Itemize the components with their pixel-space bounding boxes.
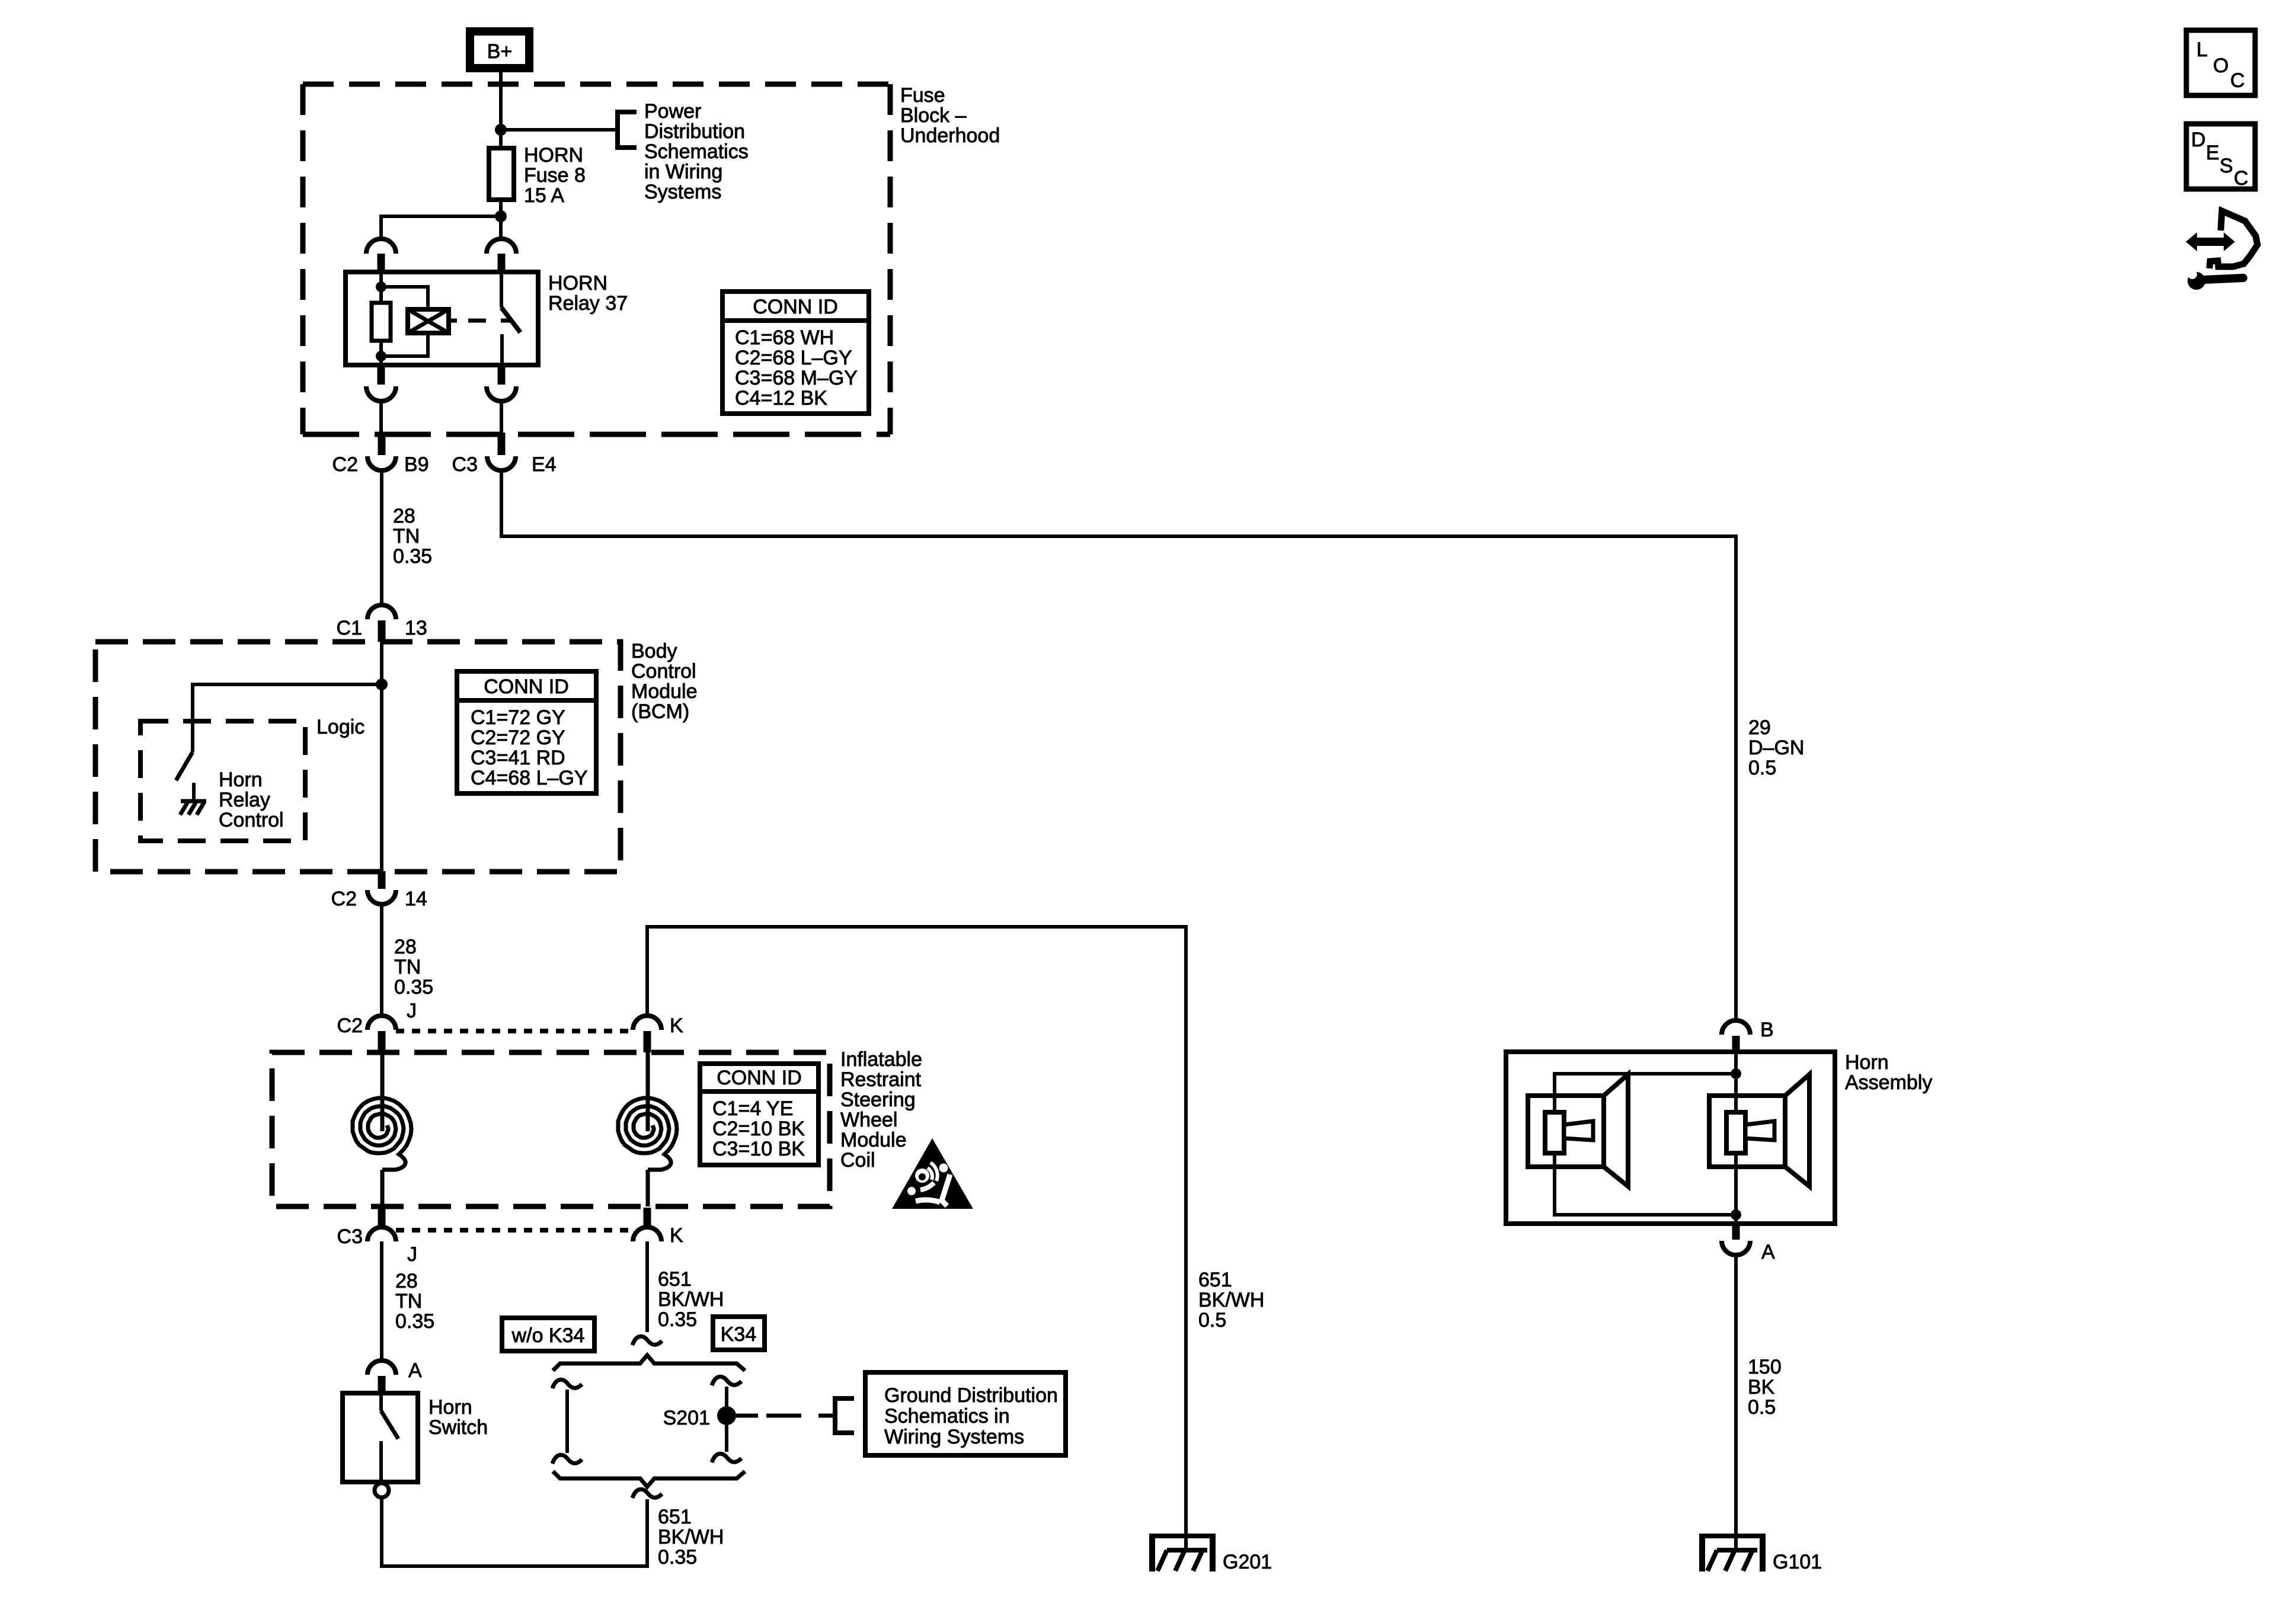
svg-text:CONN ID: CONN ID (484, 676, 569, 698)
svg-text:Horn: Horn (428, 1396, 472, 1419)
splice S201 (717, 1406, 736, 1425)
dashed actuation link (449, 319, 511, 323)
horn assembly box (1506, 1052, 1835, 1224)
power distribution reference bracket (618, 112, 637, 148)
top option brace (553, 1355, 745, 1371)
svg-text:(BCM): (BCM) (631, 700, 689, 723)
svg-text:0.35: 0.35 (394, 976, 433, 998)
svg-text:Wheel: Wheel (840, 1109, 897, 1131)
svg-text:C2: C2 (337, 1014, 363, 1037)
SIR warning triangle (892, 1138, 973, 1209)
svg-text:Logic: Logic (316, 716, 364, 738)
wire 651 BK/WH 0.35 (K to splice) (645, 1241, 649, 1332)
svg-text:S: S (2220, 155, 2233, 177)
connector A (horn switch) (367, 1361, 396, 1375)
horn relay control switch blade (176, 752, 193, 780)
svg-text:C4=12 BK: C4=12 BK (735, 387, 827, 409)
svg-text:15 A: 15 A (524, 184, 564, 207)
svg-text:C3: C3 (337, 1225, 363, 1248)
BCM dashed box (95, 642, 621, 872)
svg-text:C3=68 M–GY: C3=68 M–GY (735, 367, 858, 389)
svg-text:0.5: 0.5 (1748, 757, 1776, 779)
resistor inside relay (372, 303, 391, 341)
wire K to G201 branch (647, 927, 1186, 1536)
svg-text:C2: C2 (332, 453, 358, 476)
connector C2 pin J (367, 1016, 396, 1030)
svg-text:G101: G101 (1773, 1551, 1822, 1573)
svg-text:D: D (2191, 129, 2206, 151)
wire 651 BK/WH 0.35 (splice to horn switch) (382, 1497, 647, 1566)
DESC box icon (2186, 124, 2255, 189)
svg-text:Schematics in: Schematics in (884, 1405, 1010, 1427)
svg-text:0.35: 0.35 (393, 545, 432, 568)
K34 tag box (713, 1317, 765, 1350)
svg-text:C2: C2 (331, 888, 357, 910)
svg-text:B9: B9 (404, 453, 429, 476)
svg-text:29: 29 (1748, 716, 1771, 739)
svg-text:Underhood: Underhood (900, 124, 1000, 147)
connector C1 pin 13 (367, 605, 396, 619)
svg-text:K34: K34 (721, 1323, 757, 1346)
svg-text:Distribution: Distribution (644, 120, 745, 143)
svg-text:C1: C1 (337, 617, 362, 639)
svg-text:Control: Control (219, 809, 284, 831)
wire end into G201 (1184, 1536, 1188, 1550)
svg-text:13: 13 (405, 617, 427, 639)
horn (left) (1528, 1096, 1604, 1167)
svg-text:B+: B+ (487, 40, 513, 63)
relay coil (box with X) (408, 309, 449, 333)
wire 28 TN 0.35 (J to horn switch A) (380, 1241, 383, 1361)
svg-text:Wiring Systems: Wiring Systems (884, 1426, 1024, 1448)
fuse block - underhood dashed boundary (303, 82, 890, 87)
LOC box icon (2186, 30, 2255, 95)
svg-text:HORN: HORN (524, 144, 583, 167)
relay switch (500, 272, 503, 308)
svg-text:A: A (1761, 1241, 1775, 1263)
svg-text:CONN ID: CONN ID (753, 296, 838, 318)
svg-text:651: 651 (658, 1268, 692, 1291)
w/o K34 path (552, 1379, 582, 1388)
connector A (horn assembly) (1732, 1224, 1740, 1240)
svg-text:Ground Distribution: Ground Distribution (884, 1384, 1058, 1407)
svg-text:C3=41 RD: C3=41 RD (471, 747, 565, 769)
svg-text:G201: G201 (1223, 1551, 1272, 1573)
connector C2 pin B9 (378, 433, 386, 455)
svg-text:BK: BK (1748, 1376, 1775, 1398)
svg-text:Inflatable: Inflatable (840, 1048, 922, 1071)
interconnect dotted line C2J-K (396, 1029, 633, 1033)
svg-text:28: 28 (395, 1270, 418, 1292)
svg-text:O: O (2213, 55, 2228, 77)
w/o K34 tag box (502, 1318, 594, 1351)
B+ battery terminal (470, 31, 529, 68)
svg-text:C3: C3 (452, 453, 478, 476)
svg-text:Control: Control (631, 660, 696, 683)
svg-text:L: L (2196, 39, 2208, 61)
svg-text:14: 14 (405, 888, 427, 910)
connector C3 pin E4 (498, 433, 506, 455)
svg-text:TN: TN (393, 525, 420, 548)
svg-text:BK/WH: BK/WH (658, 1526, 724, 1548)
svg-text:Module: Module (631, 680, 698, 703)
connector K (bottom) (644, 1208, 651, 1227)
bottom option brace (553, 1471, 745, 1487)
ground (logic internal) (181, 799, 206, 804)
svg-text:C1=4 YE: C1=4 YE (712, 1097, 793, 1120)
navigation arrow + wrench icon (2186, 232, 2235, 251)
svg-text:w/o K34: w/o K34 (511, 1324, 585, 1347)
internal wiring (1734, 1052, 1738, 1224)
SIR CONN ID table (700, 1064, 818, 1165)
svg-text:651: 651 (1198, 1269, 1232, 1291)
svg-text:Schematics: Schematics (644, 140, 749, 163)
horn switch contacts (379, 1393, 383, 1411)
svg-text:Relay: Relay (219, 789, 270, 811)
svg-text:0.5: 0.5 (1748, 1396, 1776, 1419)
connector C2 pin 14 (378, 871, 386, 889)
svg-text:K: K (670, 1014, 683, 1037)
horn (right) (1709, 1096, 1785, 1167)
open terminal circle (375, 1483, 389, 1497)
svg-text:C1=68 WH: C1=68 WH (735, 327, 834, 349)
svg-text:28: 28 (394, 936, 417, 958)
svg-text:C2=10 BK: C2=10 BK (712, 1118, 805, 1140)
svg-text:0.35: 0.35 (658, 1546, 697, 1569)
svg-text:0.35: 0.35 (658, 1308, 697, 1331)
svg-text:HORN: HORN (548, 272, 607, 295)
svg-text:J: J (407, 1000, 417, 1022)
wire 28 TN 0.35 (14 to coil J) (380, 904, 383, 1016)
svg-text:Fuse: Fuse (900, 84, 945, 107)
svg-text:Switch: Switch (428, 1416, 488, 1439)
svg-text:C4=68 L–GY: C4=68 L–GY (471, 767, 588, 789)
svg-text:Restraint: Restraint (840, 1068, 922, 1091)
svg-text:Steering: Steering (840, 1089, 916, 1111)
svg-text:Module: Module (840, 1129, 907, 1151)
connector C3 pin J (bottom) (378, 1208, 386, 1227)
svg-text:E4: E4 (532, 453, 557, 476)
svg-text:BK/WH: BK/WH (1198, 1289, 1264, 1311)
BCM CONN ID table (722, 292, 869, 414)
svg-text:0.5: 0.5 (1198, 1309, 1226, 1331)
node: junction at B+ feed (495, 124, 507, 136)
svg-text:E: E (2206, 142, 2220, 164)
svg-text:C: C (2230, 69, 2245, 92)
ground G201 (1149, 1534, 1216, 1538)
connector K (top) (633, 1016, 661, 1030)
K34 path with S201 (712, 1377, 741, 1385)
svg-text:A: A (408, 1359, 422, 1382)
relay HORN Relay 37 box (346, 272, 538, 365)
svg-text:C2=68 L–GY: C2=68 L–GY (735, 347, 852, 369)
svg-text:C3=10 BK: C3=10 BK (712, 1138, 805, 1160)
logic dashed box (140, 721, 305, 841)
wire junction to relay coil pin (381, 216, 501, 239)
svg-text:Power: Power (644, 100, 701, 123)
svg-text:C1=72 GY: C1=72 GY (471, 706, 565, 729)
node: junction below fuse (495, 210, 507, 222)
wires relay pins to fuse block edge (381, 401, 501, 437)
svg-text:Fuse 8: Fuse 8 (524, 164, 586, 187)
ground G101 (1699, 1534, 1766, 1538)
svg-text:K: K (670, 1224, 683, 1247)
svg-text:Relay 37: Relay 37 (548, 292, 628, 315)
relay coil branch wires (379, 272, 383, 365)
svg-text:TN: TN (394, 956, 421, 978)
svg-text:Block –: Block – (900, 104, 967, 127)
coil spiral right (646, 1052, 650, 1131)
wire through BCM (380, 642, 383, 871)
wire B+ to fuse (499, 72, 503, 148)
wire fuse to relay junction (499, 200, 503, 239)
svg-text:Body: Body (631, 640, 677, 662)
ground distribution schematics box (865, 1372, 1066, 1455)
svg-text:CONN ID: CONN ID (717, 1067, 802, 1089)
svg-text:150: 150 (1748, 1356, 1782, 1378)
svg-text:D–GN: D–GN (1748, 737, 1804, 759)
svg-text:C: C (2234, 167, 2249, 190)
svg-text:in Wiring: in Wiring (644, 161, 722, 183)
coil spiral left (380, 1052, 385, 1131)
connector B (horn assembly) (1722, 1020, 1750, 1035)
wire 150 BK 0.5 to G101 (1734, 1255, 1738, 1550)
fuse HORN Fuse 8 15A (489, 148, 514, 200)
svg-text:Coil: Coil (840, 1149, 875, 1172)
svg-text:C2=72 GY: C2=72 GY (471, 726, 565, 749)
svg-text:Horn: Horn (219, 769, 263, 791)
svg-text:651: 651 (658, 1506, 692, 1528)
wire junction to power distribution bracket (501, 128, 615, 132)
relay bottom pin connectors (378, 365, 385, 385)
svg-text:J: J (407, 1243, 417, 1266)
svg-text:Systems: Systems (644, 181, 721, 203)
ground distribution reference bracket (835, 1398, 854, 1433)
wire 29 D-GN 0.5 (E4 to horn assembly B) (501, 470, 1736, 1020)
svg-text:TN: TN (395, 1290, 422, 1313)
wire 28 TN 0.35 (B9 to BCM C1) (380, 470, 383, 605)
svg-text:0.35: 0.35 (395, 1310, 434, 1333)
BCM CONN ID table (457, 671, 596, 793)
relay top pin connectors (366, 239, 396, 254)
interconnect dotted line C3J-K (396, 1228, 633, 1233)
svg-text:28: 28 (393, 505, 415, 527)
svg-text:Assembly: Assembly (1845, 1071, 1932, 1094)
horn switch box (343, 1393, 418, 1482)
svg-text:BK/WH: BK/WH (658, 1288, 724, 1311)
inflatable restraint steering wheel module coil dashed box (272, 1052, 830, 1206)
svg-text:S201: S201 (663, 1407, 710, 1429)
wire to horn relay control switch (193, 684, 382, 752)
svg-text:Horn: Horn (1845, 1051, 1889, 1074)
svg-text:B: B (1760, 1019, 1774, 1041)
